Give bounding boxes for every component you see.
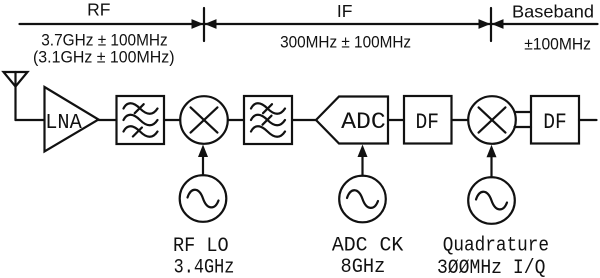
svg-text:(3.1GHz ± 100MHz): (3.1GHz ± 100MHz)	[33, 49, 175, 67]
arrowhead IF segment right end	[479, 19, 491, 29]
wire DF1 to mixer M2	[452, 119, 469, 121]
block DF2 digital filter	[531, 96, 579, 144]
wire DF2 output	[579, 119, 597, 121]
wire ADC clock to ADC	[361, 157, 363, 176]
svg-text:RF LO: RF LO	[173, 235, 229, 258]
arrowhead ADC clock into ADC	[358, 145, 368, 158]
amplifier LNA	[45, 87, 99, 152]
mixer M2 quadrature	[468, 96, 516, 144]
ADC converter block	[316, 97, 388, 144]
oscillator quadrature LO	[468, 177, 515, 224]
svg-text:IF: IF	[337, 1, 353, 21]
node IF/Baseband boundary tick	[490, 8, 492, 41]
wire mixer M1 to filter F2	[228, 119, 244, 121]
antenna	[4, 72, 28, 120]
oscillator ADC clock	[339, 176, 386, 223]
filter F1 bandpass box	[117, 96, 165, 144]
svg-text:Quadrature: Quadrature	[443, 235, 549, 258]
wire mixer M2 to DF2 Q path	[515, 126, 532, 128]
wire ADC to DF1	[388, 119, 404, 121]
wire filter F2 to ADC	[292, 119, 316, 121]
svg-text:DF: DF	[543, 109, 567, 135]
wire filter F1 to mixer M1	[164, 119, 180, 121]
wire RF LO to mixer M1	[202, 156, 204, 175]
wire antenna to LNA	[16, 119, 45, 121]
arrowhead quadrature LO into mixer M2	[487, 145, 497, 158]
arrowhead RF LO into mixer M1	[198, 145, 208, 158]
svg-text:300MHz ± 100MHz: 300MHz ± 100MHz	[280, 34, 411, 52]
wire quadrature LO to mixer M2	[490, 157, 492, 178]
arrowhead IF segment left end	[205, 19, 217, 29]
arrowhead RF segment right end	[192, 19, 204, 29]
wire mixer M2 to DF2 I path	[515, 111, 532, 113]
svg-text:DF: DF	[416, 109, 440, 135]
svg-text:ADC CK: ADC CK	[332, 235, 404, 258]
wire frequency-band dimension line	[20, 23, 598, 25]
mixer M1	[180, 96, 228, 144]
oscillator RF LO	[180, 175, 227, 222]
block DF1 digital filter	[404, 96, 452, 144]
svg-text:3.7GHz ± 100MHz: 3.7GHz ± 100MHz	[41, 31, 168, 49]
svg-text:3.4GHz: 3.4GHz	[174, 256, 235, 278]
wire LNA to filter F1	[99, 119, 117, 121]
arrowhead Baseband segment left end	[492, 19, 504, 29]
svg-text:8GHz: 8GHz	[341, 256, 386, 278]
svg-text:±100MHz: ±100MHz	[524, 36, 591, 54]
svg-text:3ØØMHz I/Q: 3ØØMHz I/Q	[437, 257, 546, 278]
svg-text:ADC: ADC	[341, 109, 386, 135]
svg-text:RF: RF	[87, 0, 110, 20]
filter F2 lowpass box	[244, 96, 292, 144]
svg-text:Baseband: Baseband	[512, 2, 594, 22]
node RF/IF boundary tick	[203, 8, 205, 41]
svg-text:LNA: LNA	[45, 111, 82, 135]
